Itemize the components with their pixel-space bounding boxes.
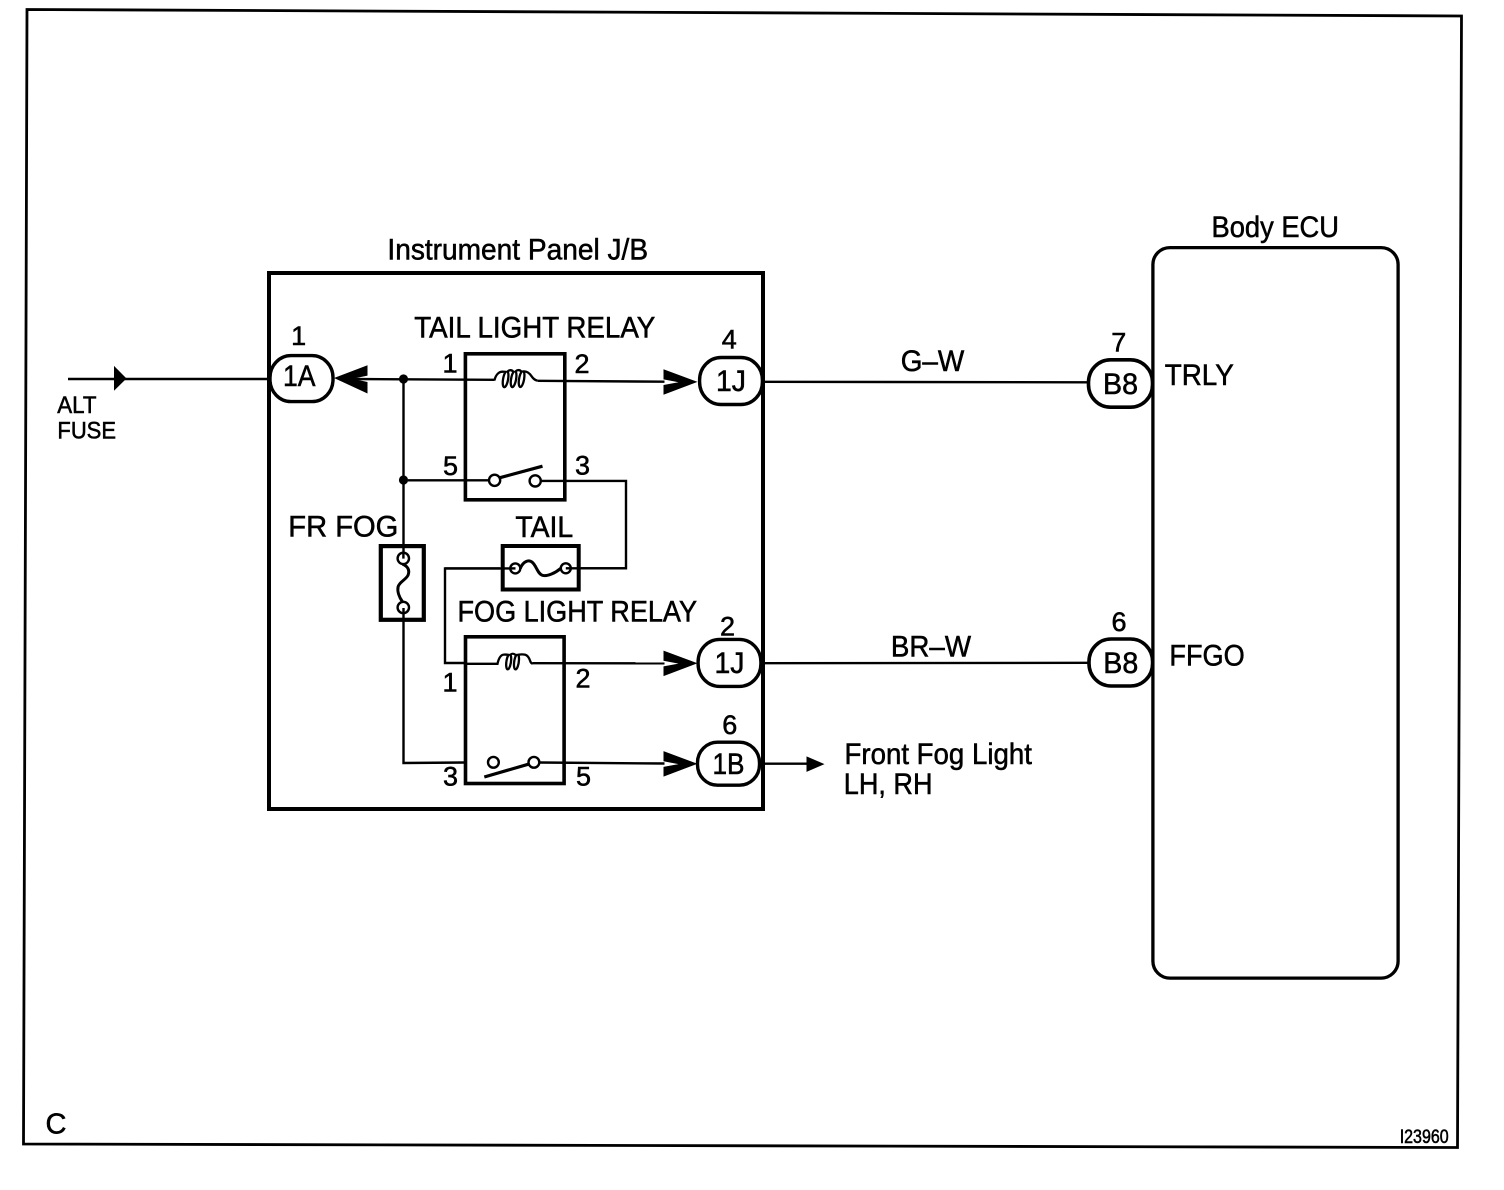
svg-text:ALT: ALT (57, 392, 96, 419)
svg-text:TAIL LIGHT RELAY: TAIL LIGHT RELAY (414, 312, 655, 345)
svg-text:1: 1 (442, 349, 457, 379)
svg-text:B8: B8 (1103, 368, 1138, 401)
tail light relay box (465, 354, 564, 500)
connector 1A (270, 356, 333, 402)
svg-text:1J: 1J (716, 365, 746, 398)
wire from ALT FUSE (68, 378, 270, 380)
wire G-W (762, 381, 1089, 384)
svg-text:3: 3 (443, 762, 458, 792)
svg-text:5: 5 (576, 762, 591, 792)
connector B8 pin 6 (1089, 639, 1153, 686)
tail relay coil (494, 370, 537, 387)
svg-text:5: 5 (443, 451, 458, 481)
fuse FR FOG (381, 546, 424, 620)
junction node lower (399, 475, 408, 484)
svg-text:7: 7 (1111, 328, 1126, 358)
svg-text:FUSE: FUSE (57, 418, 116, 445)
svg-text:C: C (46, 1109, 67, 1141)
svg-text:Body ECU: Body ECU (1212, 211, 1340, 244)
svg-text:TAIL: TAIL (515, 511, 573, 544)
fuse TAIL (503, 546, 579, 590)
svg-text:G–W: G–W (901, 345, 965, 378)
arrow to front fog light (807, 756, 825, 772)
svg-text:BR–W: BR–W (891, 630, 972, 663)
svg-text:FFGO: FFGO (1169, 639, 1244, 672)
wire 1A to tail relay pin 1 (352, 378, 495, 381)
wire tail relay pin 2 to 1J (538, 380, 665, 383)
svg-text:1B: 1B (713, 748, 745, 781)
wire 1B to front fog light (760, 763, 808, 765)
svg-text:FR FOG: FR FOG (288, 510, 398, 543)
Body ECU box (1153, 248, 1398, 979)
wire junction down to FR FOG fuse (402, 379, 404, 558)
svg-text:B8: B8 (1103, 647, 1138, 680)
svg-text:LH, RH: LH, RH (844, 768, 933, 801)
arrow into 1J (pin 2) (664, 651, 698, 677)
svg-text:1J: 1J (715, 647, 745, 680)
connector 1J pin 2 (698, 639, 761, 686)
svg-text:I23960: I23960 (1400, 1127, 1449, 1148)
svg-text:2: 2 (576, 664, 591, 694)
connector 1B pin 6 (698, 742, 760, 785)
wire TAIL fuse to fog relay pin 1 (445, 568, 500, 663)
fog light relay box (466, 637, 565, 784)
svg-text:1: 1 (442, 668, 457, 698)
svg-text:2: 2 (575, 349, 590, 379)
wire FR FOG fuse down to fog relay pin 3 (404, 608, 467, 763)
svg-text:TRLY: TRLY (1165, 359, 1234, 392)
Instrument Panel J/B box (269, 273, 763, 809)
arrow (left chevron) at 1A (334, 365, 368, 393)
svg-text:Instrument Panel J/B: Instrument Panel J/B (387, 233, 648, 266)
svg-text:4: 4 (722, 325, 737, 355)
connector B8 pin 7 (1089, 360, 1153, 407)
arrow into 1J (pin 4) (664, 369, 698, 395)
arrow into 1B (664, 751, 698, 777)
wire tail relay pin 3 to TAIL fuse (541, 481, 626, 568)
fog relay switch (488, 757, 499, 768)
svg-text:6: 6 (1111, 607, 1126, 637)
svg-text:6: 6 (722, 710, 737, 740)
connector 1J pin 4 (700, 358, 763, 405)
tail relay switch (408, 479, 489, 481)
wire BR-W (761, 662, 1089, 665)
svg-text:FOG LIGHT RELAY: FOG LIGHT RELAY (458, 595, 698, 628)
svg-text:3: 3 (575, 451, 590, 481)
svg-text:Front Fog Light: Front Fog Light (845, 738, 1033, 771)
svg-text:2: 2 (720, 612, 735, 642)
svg-text:1A: 1A (283, 360, 316, 393)
wire fog relay pin 2 to 1J (533, 662, 665, 664)
wire fog relay pin 5 to 1B (539, 763, 664, 764)
fog relay coil (466, 654, 533, 670)
svg-text:1: 1 (291, 321, 306, 351)
arrow into 1A (114, 366, 127, 391)
junction node upper (399, 374, 408, 383)
